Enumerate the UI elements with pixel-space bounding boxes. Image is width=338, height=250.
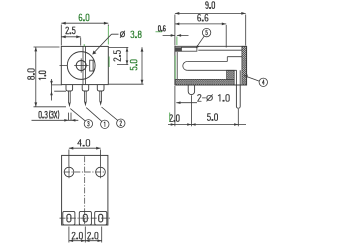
dim 6.0 green extension	[107, 26, 110, 67]
dim text 1.0	[39, 71, 46, 80]
centerline pads	[60, 217, 111, 219]
balloon 2 digit	[120, 121, 122, 126]
dim text 6.6	[198, 14, 208, 21]
dim 0.6 lines	[163, 34, 189, 36]
side view shell outline	[175, 46, 247, 85]
pin base 3	[97, 85, 104, 91]
leader 2-dia-1.0	[176, 102, 197, 104]
pin needle 1	[69, 91, 71, 103]
balloon 4 leader	[246, 76, 260, 81]
dim 5.0 right lines	[109, 47, 144, 84]
pad slot 2	[83, 214, 87, 222]
balloon 3	[84, 120, 92, 128]
dim 8.0 lines	[34, 47, 67, 107]
dim 2.5 lines	[61, 37, 80, 46]
balloon 5	[202, 28, 210, 36]
dim text 0.3(3X)	[39, 111, 59, 119]
mounting hole left	[64, 167, 74, 177]
pin leader to balloon 3	[70, 109, 85, 121]
dim text 2.0 right	[88, 232, 98, 239]
dim text 5.0 side	[207, 114, 217, 121]
inner left wall line	[176, 52, 178, 80]
green underline 0.6	[156, 31, 163, 33]
dim 4.0 lines	[69, 148, 101, 166]
cavity slot bottom	[187, 69, 236, 71]
dim text 4.0	[78, 139, 90, 146]
solder pad 2	[79, 211, 91, 225]
barrel outer circle	[67, 52, 95, 80]
green tick near 2.0	[169, 113, 171, 123]
slot channel lines	[83, 46, 86, 84]
cavity slot left arc	[183, 62, 188, 71]
dim 0.3(3X) lines	[32, 113, 79, 121]
dim text 2.0 side	[170, 115, 179, 122]
balloon 5 digit	[206, 30, 208, 35]
side bottom dim lines	[168, 86, 246, 126]
centerline horizontal holes	[64, 171, 106, 173]
mounting hole right	[96, 167, 106, 177]
dim 9.0 lines	[175, 13, 246, 45]
bottom view body	[62, 155, 108, 225]
balloon 4	[259, 78, 267, 86]
dim text 0.6	[158, 26, 165, 31]
dim text 6.0	[79, 14, 89, 21]
dim 1.0 lines	[52, 79, 67, 101]
pin leader to balloon 1	[86, 108, 102, 122]
dim text 5.0 right	[130, 60, 137, 70]
leader diameter 3.8	[93, 34, 118, 53]
dim 6.6 lines	[175, 24, 226, 48]
pad slot 1	[67, 214, 71, 222]
dim text 3.8	[131, 31, 141, 38]
balloon 2	[117, 119, 125, 127]
center pin circle	[76, 61, 86, 71]
terminal pin long	[236, 70, 240, 108]
center cross mark	[60, 58, 89, 72]
inner ceiling line	[198, 49, 242, 51]
dim text 2.0 left	[72, 232, 82, 239]
balloon 1 digit	[103, 122, 106, 127]
front view body outline	[61, 46, 108, 84]
metal bushing hatched	[242, 46, 247, 85]
balloon 4 digit	[262, 80, 264, 85]
pin base 2	[82, 85, 89, 91]
dim text 2.5 top	[66, 27, 75, 34]
inner hatched block	[227, 70, 235, 79]
dim text 2-dia-1.0	[198, 95, 230, 102]
terminal pin short	[188, 85, 194, 94]
dim text 8.0	[28, 69, 35, 80]
pin leader to balloon 2	[102, 107, 118, 121]
solder pad 1	[63, 211, 75, 225]
pad slot 3	[99, 214, 103, 222]
hole center marks	[69, 166, 101, 178]
contact window	[90, 60, 93, 71]
green tick above slot	[83, 44, 85, 46]
dim text 2.5 right	[114, 51, 121, 61]
top hole rectangle	[181, 47, 197, 51]
dim text 9.0	[206, 2, 215, 9]
base hatched strip	[175, 79, 234, 85]
centerline vertical	[84, 156, 86, 224]
solder pad 3	[95, 211, 107, 225]
bottom dim lines 2.0 2.0	[69, 227, 102, 243]
dim text diameter sign	[120, 31, 124, 37]
pin needle 3	[100, 91, 102, 102]
dim 6.0 lines	[61, 23, 108, 45]
balloon 3 digit	[88, 121, 90, 126]
green edge artifacts	[175, 37, 177, 80]
dim 2.5 right lines	[109, 47, 129, 64]
pin base 1	[66, 85, 73, 91]
pin needle 2	[85, 91, 87, 102]
balloon 5 leader	[197, 36, 205, 47]
cavity slot top and step	[187, 57, 242, 62]
balloon 1	[101, 120, 109, 128]
top wall dark band	[175, 47, 182, 51]
